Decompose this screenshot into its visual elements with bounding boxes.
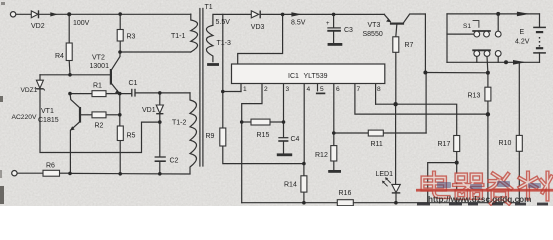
svg-text:6: 6: [336, 86, 340, 93]
svg-text:R15: R15: [257, 132, 270, 139]
svg-text:2: 2: [264, 86, 268, 93]
svg-text:100V: 100V: [73, 20, 90, 27]
svg-text:13001: 13001: [90, 63, 110, 70]
svg-text:R7: R7: [405, 42, 414, 49]
svg-text:R2: R2: [95, 122, 104, 129]
svg-text:R3: R3: [127, 33, 136, 40]
svg-text:R4: R4: [55, 53, 64, 60]
svg-text:+: +: [326, 21, 330, 27]
svg-text:VD1: VD1: [142, 107, 156, 114]
svg-text:E: E: [520, 29, 525, 36]
svg-text:VD2: VD2: [31, 23, 45, 30]
svg-text:C1: C1: [129, 80, 138, 87]
svg-text:5: 5: [320, 86, 324, 93]
svg-text:R9: R9: [206, 133, 215, 140]
svg-text:T1-3: T1-3: [217, 40, 232, 47]
svg-text:S8550: S8550: [363, 31, 383, 38]
svg-text:R13: R13: [468, 92, 481, 99]
svg-text:LED1: LED1: [376, 171, 394, 178]
svg-text:R12: R12: [315, 152, 328, 159]
svg-text:C4: C4: [291, 136, 300, 143]
svg-text:R14: R14: [284, 181, 297, 188]
svg-text:S1: S1: [463, 23, 471, 30]
svg-text:R10: R10: [499, 140, 512, 147]
svg-text:R1: R1: [93, 82, 102, 89]
svg-text:1: 1: [243, 86, 247, 93]
svg-text:VT3: VT3: [368, 22, 381, 29]
svg-text:4.2V: 4.2V: [515, 39, 530, 46]
svg-text:C1815: C1815: [38, 117, 59, 124]
svg-text:R16: R16: [339, 190, 352, 197]
svg-text:5.5V: 5.5V: [216, 19, 231, 26]
svg-text:T1-2: T1-2: [172, 120, 187, 127]
svg-text:3: 3: [286, 86, 290, 93]
svg-text:VDZ1: VDZ1: [21, 87, 38, 94]
svg-text:7: 7: [357, 86, 361, 93]
svg-text:IC1: IC1: [288, 73, 299, 80]
svg-text:VT2: VT2: [92, 54, 105, 61]
svg-text:T1-1: T1-1: [171, 33, 186, 40]
svg-text:R5: R5: [127, 132, 136, 139]
svg-text:8.5V: 8.5V: [291, 20, 306, 27]
svg-text:R11: R11: [371, 141, 383, 148]
svg-text:R6: R6: [46, 162, 55, 169]
svg-text:R17: R17: [438, 141, 451, 148]
svg-text:C2: C2: [170, 157, 179, 164]
svg-text:T1: T1: [205, 4, 213, 11]
svg-text:VT1: VT1: [41, 108, 54, 115]
svg-text:AC220V: AC220V: [12, 114, 37, 121]
svg-text:C3: C3: [344, 27, 353, 34]
svg-text:VD3: VD3: [251, 24, 265, 31]
svg-text:4: 4: [307, 86, 311, 93]
svg-text:YLT539: YLT539: [304, 73, 328, 80]
svg-text:8: 8: [377, 86, 381, 93]
